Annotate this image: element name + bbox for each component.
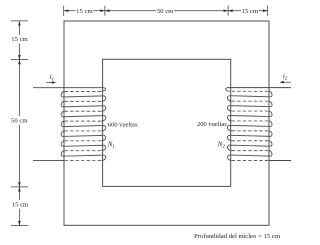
coil N2 turn 4 front strand xyxy=(229,125,270,126)
wire: right bottom lead xyxy=(269,160,291,162)
coil N1 turn 3 back strand (dashed) xyxy=(65,110,102,112)
coil N1 turn 5 front strand xyxy=(62,135,103,136)
coil N1 turn 8 back strand (dashed) xyxy=(65,160,102,162)
coil N2 turn 8 back strand (dashed) xyxy=(232,160,269,162)
svg-text:15 cm: 15 cm xyxy=(76,8,93,15)
svg-text:Profundidad del núcleo = 15 cm: Profundidad del núcleo = 15 cm xyxy=(194,233,281,240)
coil N1 turn 3 left curl xyxy=(61,111,64,117)
coil N1 turn 4 front strand xyxy=(62,126,103,127)
coil N1 turn 2 front strand xyxy=(62,106,103,107)
coil N2 turn 1 right curl xyxy=(269,91,272,97)
current arrow i2 xyxy=(284,81,291,83)
coil N1 turn 7 front strand xyxy=(62,155,103,156)
svg-text:50 cm: 50 cm xyxy=(11,118,28,125)
svg-text:15 cm: 15 cm xyxy=(242,8,259,15)
coil N1 turn 2 right hook xyxy=(101,106,105,111)
svg-text:50 cm: 50 cm xyxy=(157,8,174,15)
coil N2 turn 3 back strand (dashed) xyxy=(232,110,269,112)
coil N2 turn 3 left hook xyxy=(227,115,231,120)
coil N1 turn 6 right hook xyxy=(101,145,105,150)
coil N1 turn 1 back strand (dashed) xyxy=(65,91,102,93)
coil N1 turn 1 front strand xyxy=(62,96,103,97)
magnetic core window (inner boundary) xyxy=(103,59,231,186)
coil N2 turn 4 right curl xyxy=(269,121,272,127)
coil N2 turn 2 left hook xyxy=(227,106,231,111)
coil N2 turn 6 front strand xyxy=(229,145,270,146)
coil N1 turn 1 right hook xyxy=(101,96,105,101)
magnetic core outer boundary xyxy=(64,21,269,225)
coil N2 turn 7 right curl xyxy=(269,151,272,157)
coil N1 turn 5 left curl xyxy=(61,131,64,137)
wire: left coil top hook xyxy=(101,88,105,91)
coil N2 turn 2 right curl xyxy=(269,101,272,107)
coil N2 turn 5 right curl xyxy=(269,131,272,137)
dimension ticks, left side xyxy=(11,20,28,22)
coil N1 turn 4 left curl xyxy=(61,121,64,127)
coil N2 turn 6 back strand (dashed) xyxy=(232,140,269,142)
svg-text:15 cm: 15 cm xyxy=(11,36,28,43)
svg-text:600 vueltas: 600 vueltas xyxy=(108,121,138,128)
coil N1 turn 6 back strand (dashed) xyxy=(65,140,102,142)
dimension line, top 50 cm segment xyxy=(105,10,156,12)
coil N2 turn 4 left hook xyxy=(227,125,231,130)
dimension line, top 15 cm segment (right) xyxy=(228,10,241,12)
coil N1 turn 4 right hook xyxy=(101,126,105,131)
coil N2 turn 7 front strand xyxy=(229,155,270,156)
coil N2 turn 2 back strand (dashed) xyxy=(232,100,269,102)
coil N1 turn 2 left curl xyxy=(61,101,64,107)
coil N1 turn 6 front strand xyxy=(62,145,103,146)
svg-text:15 cm: 15 cm xyxy=(12,201,29,208)
wire: right top lead (i2) xyxy=(228,87,291,89)
coil N1 turn 7 left curl xyxy=(61,151,64,157)
coil N1 turn 3 front strand xyxy=(62,116,103,117)
wire: right coil top hook xyxy=(226,88,230,92)
current arrow i1 xyxy=(46,82,53,84)
coil N1 turn 5 back strand (dashed) xyxy=(65,130,102,132)
coil N2 turn 7 back strand (dashed) xyxy=(232,150,269,152)
coil N1 turn 1 left curl xyxy=(61,92,64,98)
coil N2 turn 7 left hook xyxy=(227,155,231,160)
coil N2 turn 3 front strand xyxy=(229,115,270,116)
coil N2 turn 5 left hook xyxy=(227,135,231,140)
coil N1 turn 7 right hook xyxy=(101,155,105,160)
svg-text:200 vueltas: 200 vueltas xyxy=(197,121,227,128)
dimension line, top 15 cm segment (left) xyxy=(64,10,76,12)
coil N2 turn 1 left hook xyxy=(227,96,231,101)
coil N2 turn 2 front strand xyxy=(229,106,270,107)
dimension line, left 15 cm segment (top) xyxy=(18,21,20,35)
coil N2 turn 1 front strand xyxy=(229,96,270,97)
dimension line, left 15 cm segment (bottom) xyxy=(18,187,20,200)
coil N1 turn 6 left curl xyxy=(61,141,64,147)
coil N1 turn 5 right hook xyxy=(101,135,105,140)
coil N2 turn 6 left hook xyxy=(227,145,231,150)
wire: left top lead (i1 in) xyxy=(33,87,104,89)
wire: left bottom lead xyxy=(33,160,65,162)
coil N1 turn 4 back strand (dashed) xyxy=(65,120,102,122)
coil N2 turn 5 front strand xyxy=(229,135,270,136)
dimension line, left 50 cm segment xyxy=(18,60,20,116)
coil N2 turn 1 back strand (dashed) xyxy=(232,90,269,92)
coil N1 turn 7 back strand (dashed) xyxy=(65,150,102,152)
coil N1 turn 3 right hook xyxy=(101,116,105,121)
coil N2 turn 6 right curl xyxy=(269,141,272,147)
coil N2 turn 4 back strand (dashed) xyxy=(232,120,269,122)
coil N2 turn 3 right curl xyxy=(269,111,272,117)
coil N1 turn 2 back strand (dashed) xyxy=(65,100,102,102)
dimension ticks, top xyxy=(63,6,65,16)
coil N2 turn 5 back strand (dashed) xyxy=(232,130,269,132)
